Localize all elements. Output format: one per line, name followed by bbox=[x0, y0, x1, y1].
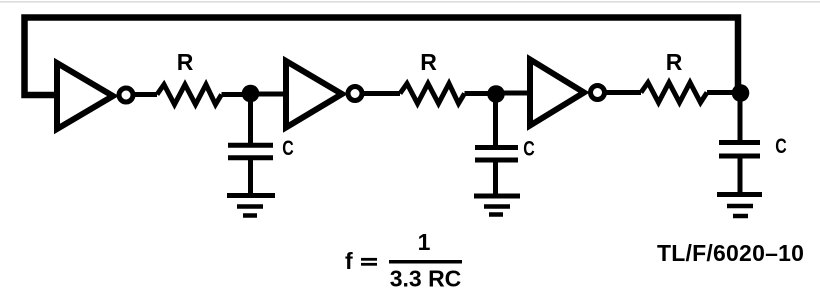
label R for R1 bbox=[177, 49, 194, 75]
capacitor C3 bbox=[719, 143, 760, 157]
ground G3 bbox=[717, 195, 762, 217]
wire node 1 down to C1 bbox=[248, 95, 253, 144]
formula fraction bar bbox=[389, 260, 462, 264]
inverter U2 bbox=[286, 61, 362, 128]
svg-text:C: C bbox=[775, 135, 787, 158]
svg-text:f: f bbox=[345, 248, 353, 274]
wire U3 output to R3 bbox=[605, 90, 642, 95]
label C for C1 bbox=[282, 137, 294, 160]
formula equals sign bbox=[361, 259, 377, 264]
node 2 junction bbox=[487, 85, 505, 103]
svg-text:1: 1 bbox=[418, 229, 431, 255]
svg-text:C: C bbox=[523, 138, 535, 161]
resistor R1 bbox=[157, 85, 222, 105]
wire node 1 to U2 input bbox=[251, 92, 286, 97]
formula f = 1 / 3.3 RC bbox=[345, 229, 461, 292]
resistor R3 bbox=[641, 83, 707, 103]
svg-text:R: R bbox=[666, 49, 683, 75]
wire C2 to ground G2 bbox=[493, 160, 498, 196]
ground G2 bbox=[474, 196, 520, 215]
label R for R3 bbox=[666, 49, 683, 75]
wire node 2 to U3 input bbox=[496, 91, 530, 96]
wire feedback loop from node 3 over the top to U1 input bbox=[25, 18, 739, 96]
wire C3 to ground G3 bbox=[738, 156, 743, 195]
capacitor C2 bbox=[475, 148, 518, 161]
inverter U1 bbox=[57, 63, 133, 129]
wire C1 to ground G1 bbox=[248, 158, 253, 196]
ground G1 bbox=[227, 196, 275, 216]
wire node 2 down to C2 bbox=[493, 94, 498, 145]
svg-text:R: R bbox=[177, 49, 194, 75]
node 3 junction bbox=[732, 84, 750, 102]
svg-text:3.3 RC: 3.3 RC bbox=[390, 266, 462, 292]
label C for C2 bbox=[523, 138, 535, 161]
label R for R2 bbox=[420, 49, 437, 75]
svg-text:R: R bbox=[420, 49, 437, 75]
svg-text:TL/F/6020–10: TL/F/6020–10 bbox=[657, 240, 804, 266]
svg-text:C: C bbox=[282, 137, 294, 160]
wire R2 to node 2 bbox=[465, 91, 497, 96]
capacitor C1 bbox=[228, 145, 273, 158]
wire node 3 down to C3 bbox=[738, 93, 743, 140]
resistor R2 bbox=[400, 84, 465, 104]
inverter U3 bbox=[530, 60, 605, 126]
wire R3 to node 3 bbox=[707, 90, 741, 95]
wire R1 to node 1 bbox=[222, 92, 252, 97]
label C for C3 bbox=[775, 135, 787, 158]
note TL/F/6020-10 bbox=[657, 240, 804, 266]
wire U1 output to R1 bbox=[133, 92, 157, 97]
node 1 junction bbox=[242, 85, 260, 103]
wire U2 output to R2 bbox=[362, 91, 400, 96]
